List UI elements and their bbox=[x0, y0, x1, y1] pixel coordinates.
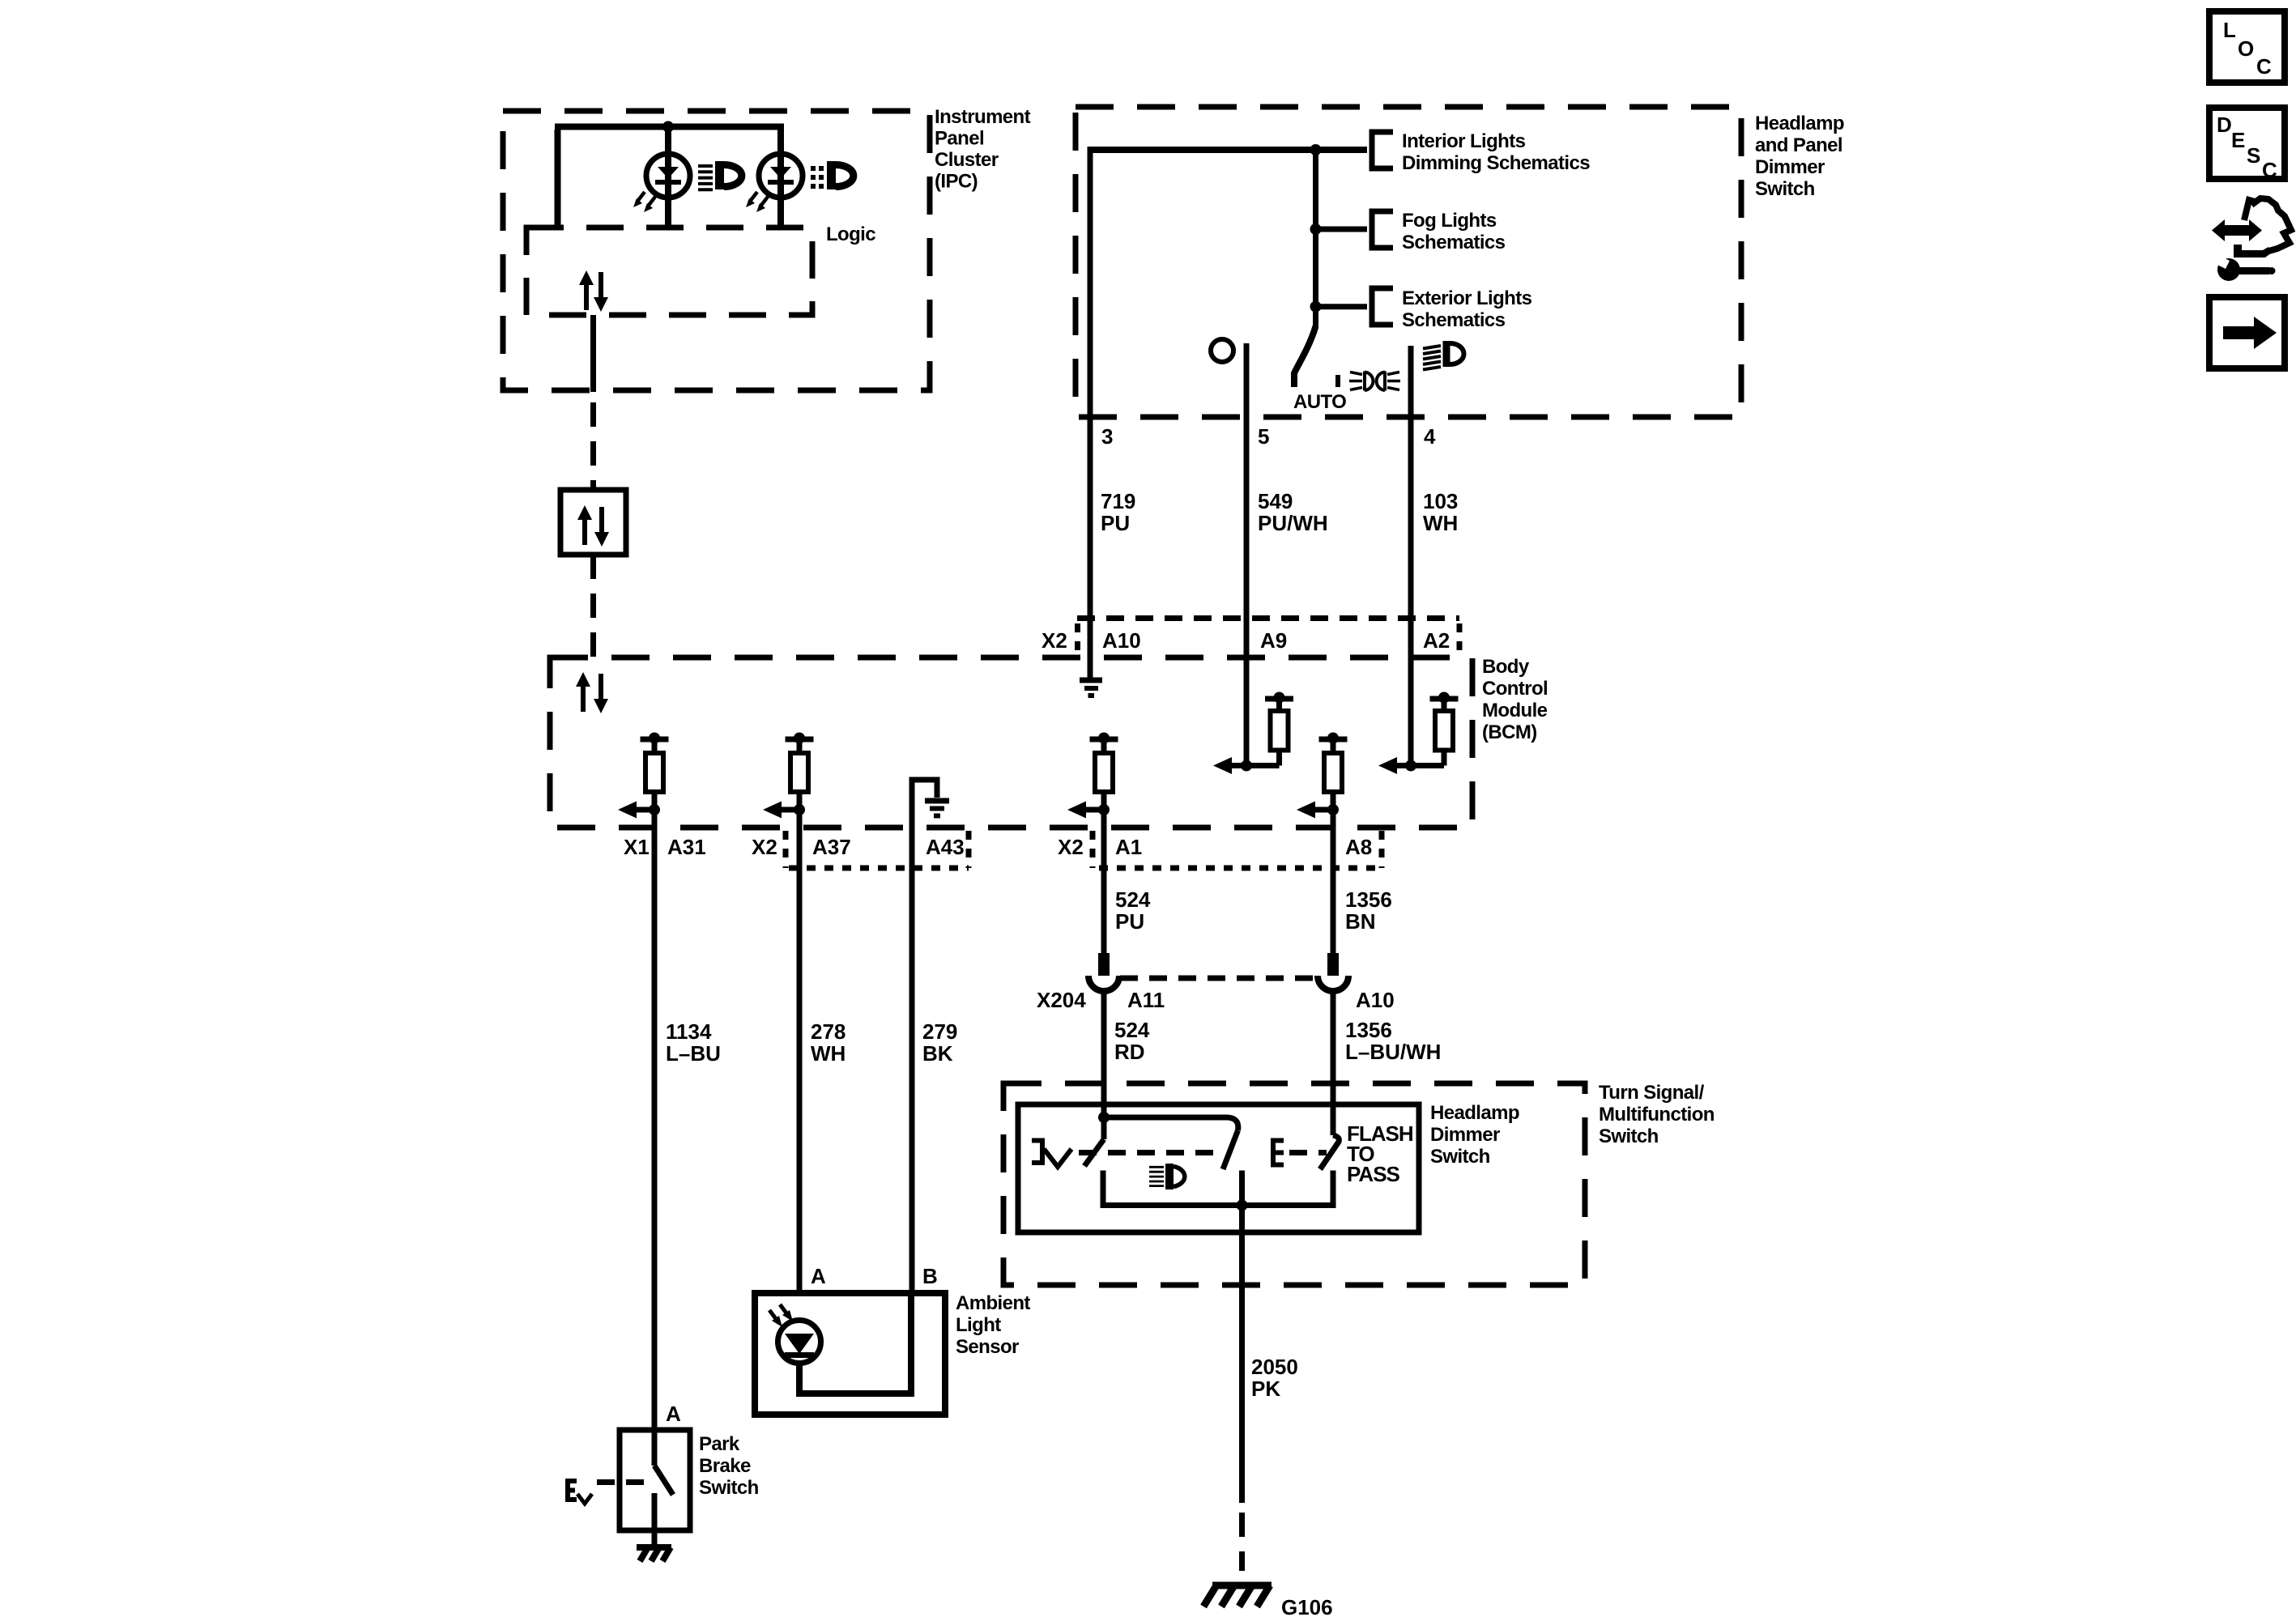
BCM dashed box bbox=[550, 657, 1472, 828]
park brake switch box bbox=[620, 1430, 690, 1530]
connector X204 dashed line bbox=[1120, 976, 1318, 981]
svg-text:Schematics: Schematics bbox=[1402, 232, 1506, 253]
svg-text:Turn Signal/: Turn Signal/ bbox=[1599, 1082, 1705, 1104]
svg-text:Interior Lights: Interior Lights bbox=[1402, 130, 1526, 152]
svg-text:X2: X2 bbox=[752, 835, 777, 859]
svg-text:Dimming Schematics: Dimming Schematics bbox=[1402, 152, 1590, 174]
svg-text:BN: BN bbox=[1345, 909, 1376, 934]
indicator LED2 (panel lamps) bbox=[759, 154, 803, 198]
svg-text:Light: Light bbox=[956, 1314, 1001, 1336]
svg-text:D: D bbox=[2217, 113, 2232, 137]
symbol detent vee bbox=[1044, 1149, 1071, 1167]
svg-text:WH: WH bbox=[811, 1041, 846, 1066]
wire park brake lower stub bbox=[652, 1493, 658, 1546]
wire A31 arrow line bbox=[633, 807, 654, 813]
wire A8 arrow line bbox=[1311, 807, 1333, 813]
bracket Interior Lights tap bbox=[1372, 132, 1393, 168]
wire dimmer output bus bbox=[1103, 1171, 1333, 1206]
wire A2 arrow line bbox=[1393, 763, 1444, 768]
svg-text:S: S bbox=[2247, 143, 2260, 168]
svg-text:Schematics: Schematics bbox=[1402, 309, 1506, 331]
linkage dashed flash to pass bbox=[1289, 1150, 1327, 1155]
svg-text:C: C bbox=[2256, 54, 2272, 79]
svg-text:X1: X1 bbox=[624, 835, 650, 859]
svg-text:WH: WH bbox=[1423, 511, 1458, 535]
icon parking lamps bbox=[1349, 372, 1400, 390]
resistor BCM A31 bbox=[641, 739, 669, 1430]
connector X2 A37 A43 strip bbox=[783, 831, 789, 868]
svg-text:524: 524 bbox=[1114, 1018, 1150, 1042]
node output bus junction bbox=[1237, 1200, 1248, 1211]
node A2 junction bbox=[1405, 760, 1416, 772]
svg-text:Instrument: Instrument bbox=[935, 106, 1031, 128]
connector X2 top strip dashed line bbox=[1077, 615, 1459, 621]
svg-text:B: B bbox=[922, 1264, 938, 1288]
svg-text:Switch: Switch bbox=[699, 1477, 759, 1499]
symbol serial data arrows (Logic) bbox=[579, 270, 608, 312]
terminal OFF position circle bbox=[1211, 339, 1233, 362]
wire IPC top bus bbox=[555, 127, 784, 228]
svg-text:E: E bbox=[2231, 128, 2245, 152]
node A1 junction bbox=[1098, 804, 1110, 815]
svg-text:Sensor: Sensor bbox=[956, 1336, 1019, 1358]
resistor BCM A9 pull-up bbox=[1265, 699, 1293, 766]
svg-text:A: A bbox=[811, 1264, 826, 1288]
wire dimmer common horizontal bbox=[1104, 1117, 1238, 1130]
svg-text:103: 103 bbox=[1423, 489, 1458, 513]
svg-text:X2: X2 bbox=[1042, 628, 1067, 653]
icon arrow box bbox=[2209, 297, 2285, 368]
wire dashed serial data IPC to box bbox=[590, 402, 596, 490]
svg-text:PU: PU bbox=[1101, 511, 1130, 535]
svg-text:278: 278 bbox=[811, 1019, 846, 1044]
ground G106 bbox=[1203, 1585, 1272, 1606]
svg-text:A: A bbox=[666, 1402, 681, 1426]
connector X204 A10 pin bbox=[1327, 953, 1339, 976]
svg-text:Dimmer: Dimmer bbox=[1430, 1124, 1500, 1146]
node A8 junction bbox=[1327, 804, 1339, 815]
connector X204 A11 pin bbox=[1098, 953, 1110, 976]
linkage dashed low beam bbox=[1079, 1150, 1223, 1155]
svg-text:A10: A10 bbox=[1102, 628, 1141, 653]
svg-text:A1: A1 bbox=[1115, 835, 1142, 859]
icon panel lamp (IPC) bbox=[811, 166, 824, 189]
svg-text:PK: PK bbox=[1251, 1377, 1280, 1401]
svg-text:5: 5 bbox=[1258, 424, 1269, 449]
wire dashed serial data box to BCM bbox=[590, 555, 596, 657]
node bus tap 1 bbox=[1310, 144, 1322, 155]
resistor BCM A2 pull-up bbox=[1430, 699, 1459, 766]
svg-text:AUTO: AUTO bbox=[1293, 391, 1346, 413]
switch blade low beam bbox=[1084, 1139, 1104, 1166]
switch blade high beam bbox=[1223, 1130, 1238, 1169]
wire A43 ground hook bbox=[912, 780, 937, 1293]
linkage dashed park brake bbox=[597, 1479, 648, 1485]
svg-text:A8: A8 bbox=[1345, 835, 1372, 859]
Logic dashed box bbox=[526, 228, 812, 315]
wire tap 3 horizontal bbox=[1316, 304, 1368, 309]
svg-text:A31: A31 bbox=[667, 835, 706, 859]
svg-text:1356: 1356 bbox=[1345, 887, 1392, 912]
node IPC bus junction bbox=[662, 121, 674, 133]
svg-text:Park: Park bbox=[699, 1433, 740, 1455]
svg-text:PASS: PASS bbox=[1347, 1162, 1400, 1186]
headlamp and panel dimmer switch dashed box bbox=[1076, 107, 1741, 417]
symbol park brake actuator E bbox=[568, 1481, 577, 1500]
ground park brake bbox=[637, 1547, 671, 1561]
node A9 junction bbox=[1241, 760, 1252, 772]
indicator LED1 (high beam) bbox=[646, 154, 690, 198]
symbol serial data arrows (BCM) bbox=[576, 672, 608, 713]
node dimmer common junction bbox=[1098, 1112, 1110, 1123]
svg-text:2050: 2050 bbox=[1251, 1355, 1298, 1379]
node bus tap 2 bbox=[1310, 223, 1322, 235]
svg-text:Brake: Brake bbox=[699, 1455, 751, 1477]
svg-text:Dimmer: Dimmer bbox=[1755, 156, 1825, 178]
svg-text:O: O bbox=[2238, 36, 2254, 61]
svg-text:Logic: Logic bbox=[826, 223, 875, 245]
svg-text:G106: G106 bbox=[1281, 1595, 1333, 1617]
svg-text:L: L bbox=[2223, 18, 2236, 42]
node A31 junction bbox=[649, 804, 660, 815]
wire pin 4 vertical bbox=[1408, 346, 1414, 766]
mark AUTO position tick bbox=[1335, 375, 1340, 387]
wire tap 2 horizontal bbox=[1316, 227, 1368, 232]
wire pin 5 vertical bbox=[1244, 343, 1250, 766]
svg-text:Fog Lights: Fog Lights bbox=[1402, 210, 1497, 232]
wire A9 arrow line bbox=[1228, 763, 1280, 768]
icon high beam lamp (IPC) bbox=[698, 166, 713, 189]
icon LOC bbox=[2209, 11, 2285, 83]
svg-text:Switch: Switch bbox=[1755, 178, 1815, 200]
svg-text:Cluster: Cluster bbox=[935, 149, 999, 171]
wire pin 3 vertical bbox=[1088, 147, 1093, 679]
wire switch feed bus bbox=[1090, 147, 1367, 153]
IPC dashed box bbox=[503, 111, 930, 390]
svg-text:A37: A37 bbox=[812, 835, 851, 859]
svg-text:549: 549 bbox=[1258, 489, 1293, 513]
switch blade park brake bbox=[654, 1430, 673, 1495]
wire switch trunk bbox=[1313, 150, 1318, 328]
svg-text:A11: A11 bbox=[1127, 988, 1165, 1012]
wire A37 arrow line bbox=[777, 807, 799, 813]
svg-text:A9: A9 bbox=[1260, 628, 1287, 653]
switch wiper arm (AUTO position) bbox=[1294, 326, 1316, 387]
svg-text:PU: PU bbox=[1115, 909, 1144, 934]
icon headlamp (pin 4) bbox=[1423, 346, 1441, 370]
svg-text:Switch: Switch bbox=[1599, 1126, 1659, 1147]
switch blade flash to pass bbox=[1320, 1135, 1339, 1169]
svg-text:Control: Control bbox=[1482, 678, 1548, 700]
svg-text:279: 279 bbox=[922, 1019, 957, 1044]
icon low beam lamp bbox=[1149, 1167, 1164, 1185]
svg-text:Exterior Lights: Exterior Lights bbox=[1402, 287, 1532, 309]
ground internal A43 bbox=[925, 801, 949, 816]
svg-text:A43: A43 bbox=[926, 835, 965, 859]
svg-text:Module: Module bbox=[1482, 700, 1548, 721]
ground internal A10 bbox=[1080, 680, 1102, 696]
connector X2 A1 A8 strip bbox=[1090, 831, 1096, 868]
svg-text:BK: BK bbox=[922, 1041, 953, 1066]
symbol flash-to-pass bracket bbox=[1273, 1141, 1284, 1165]
resistor BCM A1 bbox=[1090, 739, 1118, 953]
svg-text:L–BU: L–BU bbox=[666, 1041, 721, 1066]
svg-text:Switch: Switch bbox=[1430, 1146, 1490, 1168]
svg-text:524: 524 bbox=[1115, 887, 1151, 912]
svg-text:3: 3 bbox=[1101, 424, 1113, 449]
photodiode ambient light sensor bbox=[778, 1321, 821, 1364]
svg-text:L–BU/WH: L–BU/WH bbox=[1345, 1040, 1441, 1064]
svg-text:(IPC): (IPC) bbox=[935, 171, 978, 193]
svg-text:Headlamp: Headlamp bbox=[1755, 113, 1844, 134]
connector X2 separator bbox=[1075, 623, 1080, 657]
svg-text:Ambient: Ambient bbox=[956, 1292, 1030, 1314]
svg-text:X2: X2 bbox=[1058, 835, 1084, 859]
headlamp dimmer switch solid box bbox=[1018, 1104, 1419, 1232]
svg-text:Multifunction: Multifunction bbox=[1599, 1104, 1715, 1126]
wire 2050 PK bbox=[1239, 1206, 1245, 1504]
svg-text:A10: A10 bbox=[1356, 988, 1395, 1012]
resistor BCM A8 bbox=[1319, 739, 1348, 953]
svg-text:RD: RD bbox=[1114, 1040, 1145, 1064]
icon DESC bbox=[2209, 108, 2285, 182]
arrows incident light bbox=[769, 1304, 793, 1327]
icon pointer hand with wrench bbox=[2212, 219, 2262, 241]
turn signal multifunction switch dashed box bbox=[1003, 1083, 1585, 1285]
wire logic to IPC edge bbox=[590, 315, 596, 392]
svg-text:X204: X204 bbox=[1037, 988, 1086, 1012]
connector serial data box bbox=[560, 490, 626, 555]
wire ALS internal bbox=[799, 1293, 911, 1394]
wire A1 arrow line bbox=[1082, 807, 1104, 813]
svg-text:C: C bbox=[2262, 158, 2277, 182]
resistor BCM A37 bbox=[786, 739, 814, 1293]
svg-text:719: 719 bbox=[1101, 489, 1135, 513]
symbol detent bracket bbox=[1032, 1141, 1042, 1164]
bracket Exterior Lights tap bbox=[1372, 288, 1393, 325]
ambient light sensor box bbox=[755, 1293, 945, 1415]
svg-text:Body: Body bbox=[1482, 656, 1530, 678]
connector strip right separator bbox=[1457, 623, 1463, 657]
wire 524 RD to switch bbox=[1101, 991, 1107, 1139]
bracket Fog Lights tap bbox=[1372, 211, 1393, 248]
svg-text:A2: A2 bbox=[1423, 628, 1450, 653]
wire 1356 L-BU/WH to switch bbox=[1331, 991, 1336, 1135]
svg-text:Headlamp: Headlamp bbox=[1430, 1102, 1519, 1124]
svg-text:1134: 1134 bbox=[666, 1019, 712, 1044]
node bus tap 3 bbox=[1310, 301, 1322, 313]
svg-text:1356: 1356 bbox=[1345, 1018, 1392, 1042]
svg-text:PU/WH: PU/WH bbox=[1258, 511, 1328, 535]
svg-text:Panel: Panel bbox=[935, 128, 984, 150]
svg-text:and Panel: and Panel bbox=[1755, 134, 1842, 156]
svg-text:4: 4 bbox=[1424, 424, 1436, 449]
node A37 junction bbox=[794, 804, 805, 815]
svg-text:(BCM): (BCM) bbox=[1482, 721, 1537, 743]
